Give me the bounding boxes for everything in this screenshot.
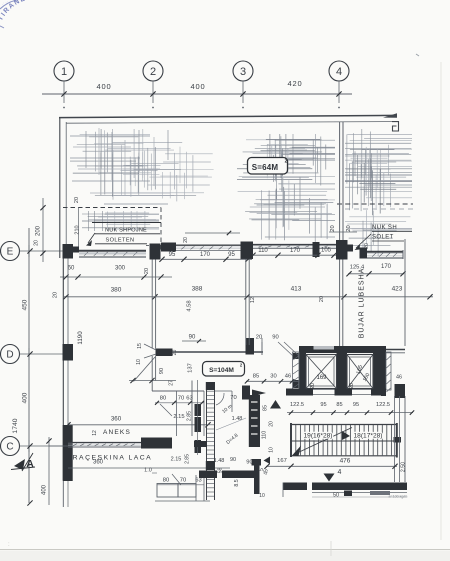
svg-text:20: 20 [269,421,275,427]
svg-text:ANEKS: ANEKS [103,429,131,436]
svg-text:1.48: 1.48 [214,458,225,464]
ladder shaft [206,384,208,500]
svg-text:400: 400 [191,82,206,91]
bottom under lines [312,492,407,494]
lower rooms line2 [152,472,157,474]
ceiling hatch block middle [237,134,335,243]
lower room box a [157,484,178,498]
svg-text:2: 2 [285,159,288,165]
column E/3 [241,242,254,260]
bottom tick left wall [27,500,32,505]
window band E center [253,244,336,246]
svg-text:90: 90 [230,457,236,463]
left lower dim line [48,437,50,505]
bottom band left a [199,471,217,479]
column E/4 [336,240,348,260]
lower room door diag [172,474,181,485]
window band E right [367,251,403,253]
svg-text:20: 20 [256,335,262,341]
zigzag wall seg c [195,440,202,453]
left wall column low [63,425,73,481]
svg-text:2.15: 2.15 [173,414,184,420]
svg-text:50: 50 [333,493,339,499]
room divider b [191,381,193,437]
svg-text:169: 169 [316,375,327,381]
svg-text:8.5: 8.5 [234,479,240,486]
lift right hatch strip [386,352,391,390]
row bubble D [1,345,20,364]
right wall black block [395,384,406,398]
leader r rooms [216,418,246,430]
svg-text:20: 20 [364,243,370,249]
svg-text:D: D [6,350,13,361]
svg-text:20: 20 [373,380,379,386]
svg-text:12: 12 [250,297,256,303]
svg-text:85: 85 [336,402,342,408]
lift left hatch strip [293,352,300,390]
leader 90 [182,340,206,342]
door swing small [160,404,172,416]
svg-text:27: 27 [169,380,175,386]
room divider a [176,391,178,436]
inner left border [65,122,67,248]
mini dim line above band [185,232,240,234]
column E right small [360,248,368,259]
scan bottom band [0,551,450,561]
dim ticks above col4 [329,231,357,233]
black triangle down [324,474,335,482]
scan fold mark bottom [330,541,332,556]
leader lifts c [284,342,299,356]
corridor column side line [261,338,263,355]
column E mid-left [150,244,161,260]
stairs [291,424,397,426]
svg-text:20: 20 [346,225,352,231]
wall grid2 upper (b) [155,260,157,349]
svg-text:20: 20 [34,240,40,246]
mullion E center [313,242,320,257]
hatch rows above dashed zone [82,211,159,231]
svg-text:95: 95 [228,252,235,258]
svg-text:2.50: 2.50 [401,462,407,472]
svg-text:105: 105 [321,248,332,254]
column E/1 nub [73,247,79,253]
svg-text:380: 380 [111,287,122,294]
stairs right block [394,437,402,443]
corridor column grid3 [246,338,255,355]
room right edge [203,391,205,436]
left dimension line [28,228,30,503]
svg-text:110: 110 [258,248,268,254]
svg-text:1.48: 1.48 [232,416,243,422]
svg-text:46: 46 [285,374,291,380]
lift shaft right box [347,355,373,389]
lintel block E [161,243,176,252]
left wall below E (outer) [62,259,64,481]
svg-text:110: 110 [262,431,268,440]
svg-text:1: 1 [61,66,67,78]
svg-text:400: 400 [97,82,112,91]
svg-text:476: 476 [340,458,351,465]
svg-text:170: 170 [381,264,392,270]
svg-text:30: 30 [270,374,276,380]
svg-text:2.85: 2.85 [187,411,193,421]
column E/1 [63,244,74,259]
row bubble C [1,437,20,456]
dashed zone top edge [63,207,161,209]
svg-text:137: 137 [188,363,194,373]
svg-text:18(17*28): 18(17*28) [354,433,383,440]
svg-text:20: 20 [330,225,336,231]
svg-text:C: C [6,442,13,453]
leader lifts a [261,342,263,355]
door swing diag [134,357,156,382]
bottom band main a [283,483,307,491]
lower room verticals [195,475,197,501]
svg-text:20: 20 [183,237,189,243]
leader lifts b [278,342,293,356]
stairs right lines [394,396,396,482]
inner top border [66,122,392,124]
lower rooms top line [148,467,230,469]
hatch topleft extra [70,135,150,137]
left dim line 200 [42,198,44,262]
dashed row right wing 2 [345,208,413,210]
svg-text:NUK SHPOJNE: NUK SHPOJNE [105,228,147,234]
svg-text:a=100 kg/m: a=100 kg/m [389,495,408,499]
lift left wall [299,346,306,391]
ceiling hatch block right [345,129,412,256]
tick 200 bottom [40,251,45,256]
tick 200 top [40,205,45,210]
leader lines door [144,344,156,350]
wall bar aneks [141,438,172,449]
lift bottom wall b [335,389,353,396]
svg-text:85: 85 [253,374,259,380]
svg-text:85: 85 [263,405,269,411]
page right edge line [440,62,442,540]
wall grid4 below E (a) [339,260,341,347]
svg-text:95: 95 [353,402,359,408]
column grid2 mid [156,349,173,357]
svg-text:20: 20 [349,383,355,389]
tick below C [46,438,51,443]
svg-text:20: 20 [319,296,325,302]
svg-text:12: 12 [92,430,98,436]
svg-text:95: 95 [320,402,326,408]
svg-text:70: 70 [230,395,236,401]
corridor wall strip [249,395,260,447]
svg-text:SOLETEN: SOLETEN [106,238,135,244]
svg-text:95: 95 [169,252,176,258]
grid bubble 2 [143,61,163,81]
svg-text:90: 90 [159,368,165,374]
zigzag wall seg b [195,417,202,432]
lift door sill b [352,389,371,391]
svg-text:122.5: 122.5 [376,402,390,408]
dim line 360 [68,424,208,426]
svg-text:70: 70 [178,396,184,402]
right building edge low [404,396,406,482]
svg-text:20: 20 [172,350,178,356]
grid bubble 4 [329,61,349,81]
lower rooms bottom ticks [155,500,210,502]
svg-text:SOLET: SOLET [372,235,394,241]
lower room box b [178,484,196,498]
outer left border [59,117,61,258]
zigzag wall seg a [195,404,202,416]
left wall column mid [63,344,74,361]
door line [129,380,176,382]
lift bottom wall a [286,389,313,396]
outer top border [59,115,397,117]
bottom band foot [282,483,284,498]
svg-text:20: 20 [53,292,59,298]
svg-text:200: 200 [36,225,42,236]
svg-text:FRAÇESKINA LACA: FRAÇESKINA LACA [67,455,152,462]
svg-text:80: 80 [160,396,166,402]
lift right wall [373,353,381,391]
wall grid3 (b) [248,260,250,346]
lift shaft left box [306,355,337,389]
black L wall lowmid [252,459,262,466]
dashed row right wing [337,203,413,205]
svg-text:2.15: 2.15 [171,457,182,463]
grid bubble 3 [233,61,253,81]
wall grid4 (a) [339,122,341,240]
svg-text:360: 360 [111,416,122,423]
window band E right cap [402,250,404,259]
svg-text:10: 10 [259,493,265,499]
svg-text:4: 4 [336,66,342,78]
zigzag wall thin [197,380,199,455]
svg-text:10: 10 [269,447,275,453]
top border end bracket [392,122,399,131]
black triangle up [270,400,281,409]
scan bottom edge line [0,549,450,551]
dim line 360 lower [68,467,148,469]
wall bar shaft link [194,441,207,447]
small mark top right [416,54,419,56]
svg-text:3: 3 [240,66,246,78]
svg-text:122.5: 122.5 [290,402,304,408]
svg-text:10: 10 [136,359,142,365]
ceiling hatch block left [70,129,214,216]
area label S=64M2 [248,158,288,175]
room r vert [231,391,233,412]
svg-text:80: 80 [163,478,169,484]
svg-text:BUJAR LUBESHA: BUJAR LUBESHA [359,268,366,339]
window sill line E left [79,253,146,255]
svg-text:420: 420 [288,79,303,88]
grid bubble 1 [54,61,74,81]
svg-text:300: 300 [115,266,126,272]
svg-text:E: E [7,247,14,258]
corridor top wall [172,351,263,353]
svg-text:2: 2 [150,66,156,78]
lift door sill a [313,389,335,391]
wall grid2 lower [151,356,153,391]
area label S=104M2 [203,362,245,377]
lift shaft right X [347,355,373,389]
room r top [215,390,232,392]
blue round stamp TIRANE [0,0,17,28]
lift top wall right ext [386,349,405,351]
svg-text:90: 90 [272,335,278,341]
svg-text:20: 20 [310,383,316,389]
svg-text:400: 400 [22,392,29,403]
svg-text:S=104M: S=104M [209,367,234,374]
left wall below E (inner) [67,259,69,481]
svg-text:450: 450 [22,299,29,310]
svg-text:20: 20 [144,268,150,274]
dim line 210 [78,207,80,250]
lift right outer wall [381,346,386,396]
lift top wall [299,346,386,353]
wall grid2 upper (a) [151,260,153,349]
wall grid4 (b) [342,122,344,240]
bottom band left b [222,471,256,479]
window band E left [79,250,146,252]
bottom band main b [312,483,407,491]
door arc r [216,393,224,405]
top border arrow end [383,113,397,118]
svg-text:423: 423 [392,286,403,293]
svg-text:170: 170 [200,252,211,258]
door arrow right [252,390,266,397]
svg-text:210: 210 [75,225,81,234]
lift bottom wall c [371,389,386,396]
section marker A [14,459,25,470]
svg-text:15: 15 [137,343,143,349]
aneks window band [68,442,141,444]
corridor wall notch [242,386,250,400]
svg-text:20: 20 [74,197,80,203]
lift shaft left X [306,355,337,389]
svg-text:1190: 1190 [77,331,84,345]
dashed zone right2 [146,245,161,247]
svg-text:70: 70 [180,478,186,484]
window band E mid [176,244,241,246]
column E/4 nub [348,245,354,252]
svg-text:90: 90 [189,335,196,341]
svg-text:19(16*28): 19(16*28) [304,433,333,440]
svg-text:413: 413 [291,286,302,293]
svg-text:2.85: 2.85 [185,454,191,464]
svg-text:NUK SH: NUK SH [372,225,397,231]
svg-text:360: 360 [93,460,104,466]
svg-text:1740: 1740 [12,418,19,433]
room top line [152,390,204,392]
wall grid3 (a) [245,260,247,346]
svg-text:45: 45 [264,469,270,475]
svg-text:4: 4 [338,469,342,476]
bottom square a [344,491,352,497]
lift mid wall [337,353,348,391]
svg-text:167: 167 [277,458,287,464]
svg-text:60: 60 [68,266,75,272]
left wall thin foot [62,481,64,507]
svg-text:46: 46 [396,375,402,381]
black triangle 2 [264,457,271,465]
C row wall tick [49,445,68,447]
wall grid4 below E (b) [342,260,344,347]
svg-text:170: 170 [290,248,301,254]
right building edge [404,239,406,346]
svg-text:S=64M: S=64M [252,163,279,172]
label NUK SHPOJNE SOLETEN [92,222,161,224]
top dimension line [42,93,352,95]
bottom square b [370,491,390,495]
svg-text:400: 400 [42,484,48,495]
svg-text:388: 388 [192,286,203,293]
svg-text:4.58: 4.58 [187,300,193,311]
dashed zone right edge [160,208,162,252]
row bubble E [1,242,20,261]
svg-text:A: A [26,458,34,470]
